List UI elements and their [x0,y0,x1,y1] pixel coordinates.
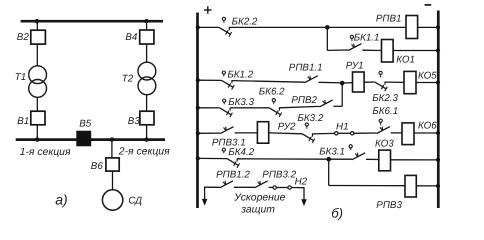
label RPV3 [376,200,402,211]
node: B3 on section busbar [144,137,148,141]
label RPV1.2 [216,170,250,181]
wire riser row4 up to row3 node [341,83,343,106]
relay coil RPV3 [405,175,416,197]
relay coil KO5 [404,71,416,93]
svg-text:КО5: КО5 [418,71,437,82]
label RPV3.2 [262,170,296,181]
node row3 on + rail [196,78,200,82]
svg-text:Т2: Т2 [122,74,134,85]
svg-text:БК6.1: БК6.1 [372,106,398,117]
transformer T1 winding 1 [29,66,47,84]
svg-text:КО3: КО3 [375,138,394,149]
wire KO5 to - rail [416,82,437,84]
label section 1 [20,147,71,158]
label BK3.3 [228,97,254,108]
svg-text:КО1: КО1 [396,55,415,66]
wire rail to contact BK3.3 [199,107,220,109]
wire RPV1.1 to node [319,81,343,84]
svg-text:Т1: Т1 [15,72,26,83]
relay coil RU2 [257,122,268,144]
pin circle BK1.1 [350,35,353,41]
transformer T2 winding 1 [138,62,156,80]
wire T2 to B3 [146,95,148,112]
wire B4 to T2 [146,44,148,62]
wire RPV1.2 to contact RPV3.2 [234,186,255,188]
svg-text:РПВ1.1: РПВ1.1 [289,62,323,73]
wire H1 to contact BK6.1 [354,132,377,134]
label BK2.3 [372,93,398,104]
arrow to acceleration of protections [202,187,208,206]
node row5 on - rail [436,131,440,135]
node: T2 feeder tap on top busbar [144,19,148,23]
label minus [425,4,432,6]
contact BK1.2 (NC) [222,80,235,90]
label RPV1.1 [289,62,323,73]
label BK6.1 [372,106,398,117]
wire rail to contact BK4.2 [199,157,227,159]
node row6 on - rail [436,158,440,162]
svg-text:РПВ2: РПВ2 [291,95,317,106]
svg-text:РУ2: РУ2 [278,121,296,132]
svg-text:В6: В6 [91,161,104,172]
wire RPV2 to riser [333,105,342,107]
contact BK3.2 (NC) [302,133,315,143]
wire BK3.1 to coil KO3 [366,158,379,160]
label KO5 [418,71,437,82]
node: SD feeder tap on section busbar [110,137,114,141]
terminal circle H2 left [273,186,276,189]
wire RPV3 to - rail [416,185,437,187]
node row1 on + rail [196,25,200,29]
arrow H2 output down [301,187,307,206]
label B1 [17,116,29,127]
contact BK4.2 (NC) [227,158,240,168]
wire BK6.1 to coil KO6 [391,132,402,134]
wire B1 to section busbar [36,125,38,140]
pin circle BK3.1 [349,145,352,150]
wire to contact BK1.1 [327,49,348,51]
svg-text:БК2.3: БК2.3 [372,93,398,104]
label RPV2 [291,95,317,106]
busbar top (section 1-2 supply) [21,20,163,23]
pin circle BK1.2 [222,71,225,76]
contact RPV3.2 (NO) [254,181,267,188]
wire RPV3.1 to coil RU2 [235,132,258,134]
contact BK1.1 (NO) [348,44,361,51]
wire rail to contact BK1.2 [199,79,222,81]
breaker B6 (В6) [106,158,119,171]
relay coil KO3 [379,150,391,171]
wire between H2 terminals [276,187,288,189]
wire BK3.3 to contact BK6.2 [230,107,269,109]
label BK3.1 [319,146,345,157]
label B6 [91,161,104,172]
node row4 on + rail [196,106,200,110]
label B4 [125,32,138,43]
synchronous motor SD (СД) [102,190,122,210]
label section 2 [118,146,170,157]
wire top busbar to B4 [146,21,148,30]
svg-text:а): а) [55,191,67,207]
label BK6.2 [259,86,285,97]
node row1/row2 branch [325,25,330,30]
svg-text:2-я секция: 2-я секция [118,146,170,157]
wire RU1 to contact BK2.3 [364,81,375,83]
node row6 on + rail [196,156,200,160]
svg-text:защит: защит [240,205,275,216]
label KO1 [396,55,415,66]
terminal circle H1 right [351,132,354,135]
wire rail to contact RPV3.1 [199,132,221,134]
label BK2.2 [232,16,258,27]
contact RPV2 (NO) [319,100,332,107]
breaker B3 (В3) [140,111,154,125]
terminal circle H1 left [335,132,338,135]
breaker B1 (В1) [31,111,45,125]
pin circle BK3.2 [305,123,308,129]
terminal circle H2 right [288,186,291,189]
svg-text:1-я секция: 1-я секция [20,147,71,158]
contact BK3.3 (NC) [220,108,233,118]
svg-text:СД: СД [128,195,142,206]
label B3 [128,116,141,127]
svg-text:БК6.2: БК6.2 [259,86,285,97]
svg-text:Н1: Н1 [336,121,349,132]
node: B1 on section busbar [35,137,39,141]
label acceleration line2 [240,205,275,216]
svg-text:Н2: Н2 [295,177,308,188]
wire node to coil RPV1 [327,26,406,28]
breaker B4 (В4) [140,30,154,44]
wire KO6 to - rail [414,132,437,134]
label B5 [79,119,92,130]
positive supply rail (+) [196,13,199,209]
contact BK3.1 (NO) [352,153,365,160]
relay coil RU1 [353,72,365,92]
wire top busbar to B2 [36,21,38,30]
wire T1 to B1 [36,97,38,111]
wire B6 to motor [112,171,114,190]
label T1 [15,72,26,83]
label RU2 [278,121,296,132]
wire H2 to corner [291,187,304,189]
svg-text:БК4.2: БК4.2 [228,147,254,158]
label RPV1 [376,13,402,24]
negative supply rail (-) [437,11,440,209]
node row1 on - rail [436,25,440,29]
relay coil RPV1 [406,16,418,39]
wire BK2.2 to node [229,26,327,28]
node row2 on - rail [436,48,440,52]
wire BK1.2 to contact RPV1.1 [232,81,305,83]
pin circle BK6.1 [379,119,382,125]
wire RPV3.2 to H2 [269,186,273,188]
wire section busbar to B6 [111,140,113,158]
svg-text:В2: В2 [17,32,30,43]
svg-text:В4: В4 [125,32,138,43]
wire RPV1 to - rail [418,26,438,28]
wire KO1 to - rail [393,50,437,52]
wire BK4.2 to node [237,158,328,160]
label H2 [295,177,308,188]
pin circle BK2.2 [222,17,225,23]
svg-text:РПВ1.2: РПВ1.2 [216,170,250,181]
svg-text:БК3.3: БК3.3 [228,97,254,108]
contact RPV1.1 (NO) [305,76,318,83]
svg-text:В3: В3 [128,116,141,127]
wire B3 to section busbar [146,125,148,140]
section busbar (lower) [16,138,165,141]
svg-text:РПВ1: РПВ1 [376,13,402,24]
contact BK6.2 (NC) [269,107,282,117]
label B2 [17,32,30,43]
svg-text:В5: В5 [79,119,92,130]
wire BK6.2 to contact RPV2 [279,106,319,107]
wire BK1.1 to coil KO1 [362,49,381,51]
label BK1.2 [227,70,253,81]
node row6/row8 branch [326,157,331,162]
node row5 on + rail [196,131,200,135]
contact RPV1.2 (NO) [220,181,233,188]
relay coil KO6 [402,123,414,145]
contact BK2.3 (NC) [375,82,388,92]
pin circle BK6.2 [272,99,275,105]
wire between H1 terminals [338,132,351,134]
contact BK6.1 (NO) [377,127,390,134]
svg-text:БК1.1: БК1.1 [354,32,380,43]
wire branch down from row6 node [328,159,330,185]
svg-text:КО6: КО6 [418,121,437,132]
node row3/row4 merge [340,81,345,86]
svg-text:БК3.2: БК3.2 [298,113,324,124]
wire node to contact BK3.1 [329,158,352,160]
label T2 [122,74,134,85]
pin circle BK2.3 [379,71,382,77]
node row8 on - rail [436,184,440,188]
label KO6 [418,121,437,132]
svg-text:БК1.2: БК1.2 [227,70,253,81]
svg-text:БК2.2: БК2.2 [232,16,258,27]
contact BK2.2 (NC) [219,27,232,37]
label BK1.1 [354,32,380,43]
node row3 on - rail [436,80,440,84]
label H1 [336,121,349,132]
label a) [55,191,67,207]
bus-tie breaker B5 (В5, closed, filled) [77,131,91,146]
wire BK2.3 to coil KO5 [385,81,404,83]
wire B2 to T1 [36,44,38,66]
svg-text:РПВ3.2: РПВ3.2 [262,170,296,181]
label plus [204,6,212,14]
wire KO3 to - rail [391,159,438,161]
transformer T1 winding 2 [29,80,47,98]
svg-text:БК3.1: БК3.1 [319,146,345,157]
wire branch to coil RPV3 [329,185,405,187]
svg-text:Ускорение: Ускорение [233,193,285,204]
svg-text:РПВ3: РПВ3 [376,200,402,211]
breaker B2 (В2) [31,30,46,44]
label b) [331,206,343,221]
label BK3.2 [298,113,324,124]
label acceleration line1 [233,193,285,204]
label KO3 [375,138,394,149]
svg-text:б): б) [331,206,343,221]
wire corner to contact RPV1.2 [205,186,220,188]
wire branch down from row1 node [326,27,328,50]
svg-text:В1: В1 [17,116,29,127]
wire rail to contact BK2.2 [199,26,219,28]
contact RPV3.1 (NO) [220,127,233,134]
wire node to coil RU1 [342,82,352,84]
pin circle BK4.2 [222,148,225,153]
wire BK3.2 to H1 [313,132,335,135]
pin circle BK3.3 [223,99,226,104]
node: T1 feeder tap on top busbar [35,19,39,23]
relay coil KO1 [382,40,394,63]
svg-text:РУ1: РУ1 [346,61,364,72]
label BK4.2 [228,147,254,158]
wire RU2 to contact BK3.2 [269,132,303,135]
label SD [128,195,142,206]
label RPV3.1 [212,137,246,148]
transformer T2 winding 2 [138,77,156,95]
label RU1 [346,61,364,72]
